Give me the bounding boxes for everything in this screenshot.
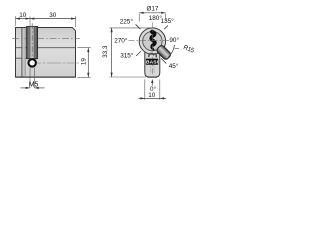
side view transition line	[16, 47, 76, 49]
33,3 extension top	[110, 27, 150, 29]
arrow at front face	[16, 18, 20, 20]
R15 arc	[168, 45, 174, 57]
diameter 17 extension lines	[139, 14, 165, 22]
diameter 17 dimension line	[139, 12, 165, 14]
19 arrow top	[87, 48, 89, 52]
svg-text:33,3: 33,3	[102, 45, 109, 58]
collar rear edge	[24, 28, 26, 78]
svg-text:135°: 135°	[161, 17, 175, 25]
svg-text:Ø17: Ø17	[146, 5, 158, 12]
33,3 extension bottom	[110, 76, 147, 78]
keyway	[150, 30, 155, 50]
svg-text:M5: M5	[29, 82, 39, 89]
svg-text:30: 30	[49, 12, 57, 19]
10 bottom dimension line	[139, 97, 167, 99]
knurled block	[27, 26, 38, 58]
33,3 arrow top	[111, 28, 113, 32]
cam	[156, 44, 172, 60]
tick 225	[136, 24, 141, 29]
tick 315	[136, 51, 141, 56]
10 bottom extension lines	[145, 80, 160, 100]
svg-text:270°: 270°	[114, 37, 128, 45]
M5 dimension line right	[35, 87, 45, 89]
M5 dimension line left	[21, 87, 30, 89]
tick 45	[161, 58, 166, 63]
19 dimension line	[87, 48, 89, 77]
M5 centerline vertical	[31, 23, 33, 57]
vertical centerline	[151, 22, 153, 78]
10 bottom arrow right	[160, 97, 164, 99]
foot keyway lines	[151, 66, 154, 73]
side view body	[16, 28, 76, 78]
0 degree leader	[151, 80, 153, 86]
arrow at rear end	[71, 18, 75, 20]
33,3 arrow bottom	[111, 73, 113, 77]
side view collar	[22, 28, 25, 77]
svg-text:45°: 45°	[169, 62, 179, 70]
diameter arrow left	[139, 12, 143, 14]
extension line rear	[75, 16, 77, 27]
side view centerline	[12, 37, 80, 39]
diameter arrow right	[161, 12, 165, 14]
R15 leader	[175, 47, 179, 49]
19 arrow bottom	[87, 73, 89, 77]
0 degree arrow	[151, 79, 153, 83]
side view plug bottom line	[16, 57, 27, 59]
M5 extension lines	[30, 68, 34, 88]
33,3 dimension line	[111, 28, 113, 77]
M5 screw hole ring	[29, 59, 36, 66]
foot bottom edge	[148, 76, 158, 78]
arrows at M5 axis	[26, 18, 30, 20]
svg-text:BASI: BASI	[146, 60, 159, 66]
extension line front	[15, 16, 17, 26]
10 bottom arrow left	[140, 97, 144, 99]
plug circle	[143, 31, 162, 50]
profile foot	[145, 51, 160, 78]
M5 dimension arrow left	[26, 87, 30, 89]
svg-text:315°: 315°	[120, 51, 134, 59]
svg-text:90°: 90°	[169, 36, 179, 44]
side view bottom edge	[16, 76, 76, 78]
svg-text:225°: 225°	[120, 17, 134, 25]
extension line M5 axis	[29, 16, 31, 25]
BASI logo plate	[146, 53, 159, 65]
tick 135	[164, 26, 168, 30]
svg-text:10: 10	[19, 12, 27, 19]
horizontal centerline	[129, 40, 172, 42]
M5 hole centerline horizontal	[27, 62, 79, 64]
M5 dimension arrow right	[34, 87, 38, 89]
svg-text:10: 10	[148, 92, 156, 99]
top dimension line	[16, 18, 76, 20]
svg-text:19: 19	[81, 58, 88, 66]
collar front edge	[21, 28, 23, 78]
19 dimension extension lines	[78, 48, 91, 78]
cylinder outer circle	[139, 28, 165, 54]
